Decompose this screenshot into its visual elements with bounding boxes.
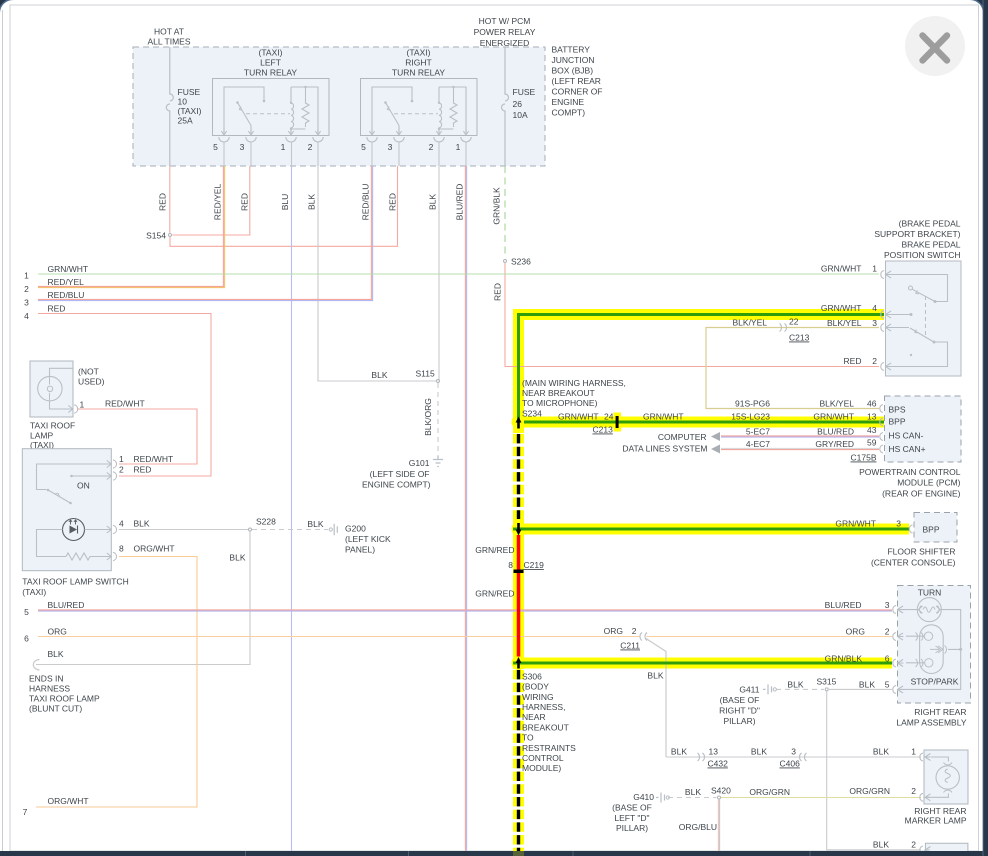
wire ORG/GRN S420 to marker lamp pin 2 <box>721 797 921 799</box>
svg-text:10A: 10A <box>513 110 528 120</box>
svg-text:24: 24 <box>604 412 614 422</box>
svg-text:RIGHT REAR: RIGHT REAR <box>914 707 966 717</box>
svg-text:BPP: BPP <box>923 525 940 535</box>
svg-text:BLK: BLK <box>48 649 64 659</box>
svg-text:WIRING: WIRING <box>522 692 554 702</box>
harness dashes upper <box>517 434 520 519</box>
svg-text:4: 4 <box>119 519 124 529</box>
svg-text:BLK: BLK <box>371 370 387 380</box>
svg-text:6: 6 <box>885 654 890 664</box>
svg-text:BLU/RED: BLU/RED <box>817 427 854 437</box>
svg-text:STOP/PARK: STOP/PARK <box>911 677 959 687</box>
svg-text:HARNESS,: HARNESS, <box>522 702 565 712</box>
svg-text:BLK: BLK <box>685 787 701 797</box>
svg-text:S234: S234 <box>522 409 542 419</box>
svg-text:(CENTER CONSOLE): (CENTER CONSOLE) <box>871 558 956 568</box>
relay K1 pin sockets <box>219 128 323 142</box>
svg-text:BLU: BLU <box>280 194 290 211</box>
svg-text:S115: S115 <box>416 369 435 379</box>
wire ORG/BLU S420 down offpage (orange+blue) <box>717 800 719 852</box>
pin 1 connector <box>68 405 77 413</box>
wire core GRN/WHT floor shifter <box>513 528 909 531</box>
svg-text:COMPUTER: COMPUTER <box>658 432 707 442</box>
dialog inner borders <box>2 10 4 851</box>
svg-text:ORG: ORG <box>48 627 67 637</box>
wire BLK G411 to S315 (dashed) <box>776 688 824 690</box>
wire GRN/WHT row 1 to brake switch pin 1 <box>38 273 879 275</box>
svg-text:S315: S315 <box>817 677 837 687</box>
svg-text:GRN/WHT: GRN/WHT <box>558 412 599 422</box>
wire RED/BLU relay K2 pin5 to row 3 (red+blue) <box>38 166 371 299</box>
svg-text:GRN/WHT: GRN/WHT <box>835 519 876 529</box>
arrow to computer data lines <box>711 432 720 441</box>
wire BLK S315 down to license lamp row <box>827 691 921 850</box>
svg-text:BLU/RED: BLU/RED <box>48 600 85 610</box>
wire GRN/WHT highlighted: S234 up/right to brake switch pin 4 and right to PCM pin 13 <box>519 315 885 423</box>
svg-text:3: 3 <box>388 142 393 152</box>
svg-text:TAXI ROOF: TAXI ROOF <box>30 421 75 431</box>
junction arrow S306 <box>516 657 522 669</box>
svg-text:TURN: TURN <box>918 588 942 598</box>
wire BLK switch pin4 to S228 <box>119 529 248 531</box>
svg-text:S228: S228 <box>256 517 276 527</box>
ground G200 <box>329 524 391 555</box>
svg-text:RIGHT "D": RIGHT "D" <box>719 706 760 716</box>
wire GRN/BLK highlighted to stop/park lamp <box>513 658 892 669</box>
svg-text:MODULE (PCM): MODULE (PCM) <box>897 478 960 488</box>
svg-text:LAMP ASSEMBLY: LAMP ASSEMBLY <box>896 718 966 728</box>
wire GRN/WHT highlighted to floor shifter BPP <box>513 524 909 535</box>
svg-text:JUNCTION: JUNCTION <box>552 55 595 65</box>
svg-text:GRN/BLK: GRN/BLK <box>825 654 863 664</box>
highlighted harness path vertical (dashed sections show yellow blocks) <box>513 422 524 433</box>
svg-text:5-EC7: 5-EC7 <box>746 427 770 437</box>
wire core GRN/BLK stop/park <box>513 662 892 665</box>
svg-text:FLOOR SHIFTER: FLOOR SHIFTER <box>887 547 955 557</box>
svg-text:POWER RELAY: POWER RELAY <box>474 27 536 37</box>
svg-text:BLK: BLK <box>307 519 323 529</box>
svg-text:BLK: BLK <box>873 840 889 850</box>
relay K1 (left turn relay) <box>213 79 330 153</box>
svg-text:(LEFT SIDE OF: (LEFT SIDE OF <box>370 469 430 479</box>
wire RED S154 to relay K1 pin 3 <box>172 166 250 235</box>
svg-text:3: 3 <box>872 318 877 328</box>
svg-text:BLK/YEL: BLK/YEL <box>733 318 768 328</box>
svg-text:DATA LINES SYSTEM: DATA LINES SYSTEM <box>622 444 707 454</box>
svg-text:GRN/WHT: GRN/WHT <box>813 412 854 422</box>
svg-text:HS CAN-: HS CAN- <box>889 431 924 441</box>
svg-text:GRN/WHT: GRN/WHT <box>643 412 684 422</box>
svg-text:BLK: BLK <box>307 194 317 210</box>
right app edge <box>983 0 988 856</box>
svg-text:ORG/WHT: ORG/WHT <box>48 796 89 806</box>
svg-text:ORG: ORG <box>846 627 865 637</box>
svg-text:RED: RED <box>158 193 168 211</box>
svg-text:22: 22 <box>789 317 799 327</box>
svg-text:C406: C406 <box>780 759 801 769</box>
svg-text:ENERGIZED: ENERGIZED <box>480 38 530 48</box>
wire RED S236 to brake switch pin 2 <box>505 263 879 367</box>
svg-text:LEFT "D": LEFT "D" <box>614 813 649 823</box>
resistor R1 <box>66 553 111 560</box>
svg-text:S154: S154 <box>146 231 166 241</box>
svg-text:ORG/WHT: ORG/WHT <box>134 544 175 554</box>
svg-text:ORG/GRN: ORG/GRN <box>749 787 790 797</box>
switch 1 <box>890 275 948 302</box>
svg-text:RED: RED <box>493 283 503 301</box>
relay pin leads (gray inside BJB box) <box>224 142 466 167</box>
svg-text:26: 26 <box>513 99 523 109</box>
indicator LED <box>63 519 85 541</box>
svg-text:BLK: BLK <box>873 747 889 757</box>
svg-text:(BODY: (BODY <box>522 682 549 692</box>
svg-text:15S-LG23: 15S-LG23 <box>731 412 770 422</box>
svg-text:BRAKE PEDAL: BRAKE PEDAL <box>901 240 960 250</box>
wire BLU/RED row 5 to lamp pin 3 (blue+red) <box>38 609 892 611</box>
svg-text:GRN/WHT: GRN/WHT <box>48 264 89 274</box>
svg-text:1: 1 <box>24 271 29 281</box>
wire BLU/RED relay K2 pin1 down to row 5 and offpage (blue+red) <box>464 166 466 851</box>
svg-text:(TAXI): (TAXI) <box>22 587 46 597</box>
svg-text:FUSE: FUSE <box>178 87 201 97</box>
splice S236 <box>504 260 507 263</box>
svg-text:2: 2 <box>911 786 916 796</box>
svg-text:4: 4 <box>24 311 29 321</box>
svg-text:(LEFT REAR: (LEFT REAR <box>552 76 601 86</box>
svg-text:BPS: BPS <box>889 405 906 415</box>
svg-text:BLK: BLK <box>787 680 803 690</box>
splice S315 <box>825 688 828 691</box>
svg-text:1: 1 <box>911 747 916 757</box>
svg-text:TAXI ROOF LAMP: TAXI ROOF LAMP <box>29 694 100 704</box>
white modal dialog <box>0 0 984 13</box>
svg-text:POWERTRAIN CONTROL: POWERTRAIN CONTROL <box>859 467 961 477</box>
splice S154 <box>169 234 172 237</box>
lamp bulb L1 <box>38 376 62 400</box>
svg-text:ENDS IN: ENDS IN <box>29 674 63 684</box>
highlighted harness hint crossing bottom bar <box>513 851 524 856</box>
svg-text:ENGINE COMPT): ENGINE COMPT) <box>362 480 431 490</box>
wire BLK/ORG S115 to G101 (dashed) <box>437 383 439 456</box>
svg-text:ENGINE: ENGINE <box>552 97 585 107</box>
svg-text:5: 5 <box>213 142 218 152</box>
close button <box>905 16 965 76</box>
svg-text:HARNESS: HARNESS <box>29 684 70 694</box>
svg-text:GRN/RED: GRN/RED <box>475 545 514 555</box>
svg-text:RED/YEL: RED/YEL <box>48 277 85 287</box>
gang link <box>925 296 927 336</box>
connector C213 arcs on BLK/YEL <box>780 324 787 332</box>
svg-text:TO: TO <box>522 733 534 743</box>
wire RED S154 to relay K2 pin 3 <box>170 166 398 246</box>
svg-text:2: 2 <box>911 840 916 850</box>
svg-text:BOX (BJB): BOX (BJB) <box>552 66 594 76</box>
svg-text:3: 3 <box>896 519 901 529</box>
svg-text:COMPT): COMPT) <box>552 108 586 118</box>
svg-text:ORG/GRN: ORG/GRN <box>849 786 890 796</box>
svg-text:BLK: BLK <box>229 553 245 563</box>
ground G101 <box>362 456 443 490</box>
wire BLK S228 to G200 (dashed) <box>252 529 328 531</box>
svg-text:BLK/YEL: BLK/YEL <box>820 399 855 409</box>
wire BLK S315 to lamp pin 5 <box>829 688 892 690</box>
svg-text:2: 2 <box>308 142 313 152</box>
svg-text:6: 6 <box>24 634 29 644</box>
svg-text:(NOT: (NOT <box>78 367 99 377</box>
svg-text:(BLUNT CUT): (BLUNT CUT) <box>29 704 82 714</box>
svg-text:C211: C211 <box>620 641 640 651</box>
svg-text:LAMP: LAMP <box>30 431 53 441</box>
svg-text:(LEFT KICK: (LEFT KICK <box>345 534 391 544</box>
svg-text:3: 3 <box>791 747 796 757</box>
svg-text:46: 46 <box>867 399 877 409</box>
svg-text:2: 2 <box>872 356 877 366</box>
svg-text:43: 43 <box>867 425 877 435</box>
wire BLK C211 branch down to C432 row <box>646 639 666 758</box>
svg-text:RED: RED <box>48 304 66 314</box>
svg-text:5: 5 <box>361 142 366 152</box>
svg-text:NEAR BREAKOUT: NEAR BREAKOUT <box>522 388 595 398</box>
wire RED/WHT taxi roof lamp pin1 to switch pin1 <box>77 409 197 464</box>
svg-text:S420: S420 <box>711 786 731 796</box>
svg-text:GRN/WHT: GRN/WHT <box>821 303 862 313</box>
wire core GRN/RED vertical <box>517 535 521 657</box>
svg-text:13: 13 <box>867 412 877 422</box>
svg-text:RED/BLU: RED/BLU <box>48 290 85 300</box>
svg-text:GRN/RED: GRN/RED <box>475 589 514 599</box>
svg-text:HOT AT: HOT AT <box>154 27 184 37</box>
wire RED fuse10 to S154 <box>169 166 171 233</box>
svg-text:GRN/BLK: GRN/BLK <box>492 187 502 225</box>
wire RED row 4 to lamp switch pin 2 <box>38 314 211 477</box>
svg-text:BLU/RED: BLU/RED <box>825 600 862 610</box>
svg-text:25A: 25A <box>178 116 193 126</box>
connector C219 tick on highlighted wire <box>514 570 524 574</box>
svg-text:5: 5 <box>24 607 29 617</box>
svg-text:CORNER OF: CORNER OF <box>552 87 603 97</box>
splice S228 <box>249 528 252 531</box>
svg-text:C219: C219 <box>524 560 545 570</box>
svg-text:1: 1 <box>80 400 85 410</box>
wire RED/YEL relay K1 pin5 to row 2 (red+yellow) <box>38 166 223 286</box>
svg-text:BLK: BLK <box>134 519 150 529</box>
svg-text:RED: RED <box>844 356 862 366</box>
svg-text:BLK: BLK <box>859 680 875 690</box>
svg-text:HOT W/ PCM: HOT W/ PCM <box>479 16 531 26</box>
svg-text:RESTRAINTS: RESTRAINTS <box>522 743 576 753</box>
svg-text:5: 5 <box>885 680 890 690</box>
arrow to computer data lines <box>711 445 720 454</box>
svg-text:G200: G200 <box>345 524 366 534</box>
svg-text:1: 1 <box>119 454 124 464</box>
svg-text:RED/BLU: RED/BLU <box>361 184 371 221</box>
svg-text:(TAXI): (TAXI) <box>178 106 202 116</box>
svg-text:ORG: ORG <box>604 626 623 636</box>
svg-text:ALL TIMES: ALL TIMES <box>148 37 191 47</box>
svg-text:7: 7 <box>23 807 28 817</box>
svg-text:PILLAR): PILLAR) <box>723 716 755 726</box>
svg-text:2: 2 <box>24 284 29 294</box>
svg-text:RIGHT: RIGHT <box>405 58 431 68</box>
svg-text:2: 2 <box>632 626 637 636</box>
wire BLK G410 to S420 (dashed) <box>668 797 717 799</box>
svg-text:RED/YEL: RED/YEL <box>213 184 223 221</box>
svg-text:PANEL): PANEL) <box>345 545 375 555</box>
svg-text:2: 2 <box>429 142 434 152</box>
relay K2 pin sockets <box>367 128 471 142</box>
svg-text:(BRAKE PEDAL: (BRAKE PEDAL <box>899 219 961 229</box>
junction arrow at floor shifter tap <box>516 523 522 536</box>
svg-text:1: 1 <box>872 264 877 274</box>
svg-text:GRY/RED: GRY/RED <box>815 439 854 449</box>
svg-text:4-EC7: 4-EC7 <box>746 439 770 449</box>
wire GRY/RED PCM pin59 (HS CAN+) (gray+red) <box>721 447 879 449</box>
battery junction box (dashed) <box>133 47 545 166</box>
svg-text:S236: S236 <box>511 257 531 267</box>
svg-text:8: 8 <box>119 544 124 554</box>
svg-text:RED: RED <box>388 193 398 211</box>
fuse F10 symbol <box>166 92 173 113</box>
svg-text:4: 4 <box>872 303 877 313</box>
switch 2 <box>890 314 910 316</box>
svg-text:S306: S306 <box>522 672 542 682</box>
svg-text:3: 3 <box>240 142 245 152</box>
svg-text:2: 2 <box>885 627 890 637</box>
wire core GRN/WHT <box>519 315 885 421</box>
svg-text:(TAXI): (TAXI) <box>259 48 283 58</box>
fuse 10 lead <box>169 47 171 166</box>
svg-text:(BASE OF: (BASE OF <box>720 695 760 705</box>
svg-text:C213: C213 <box>593 425 614 435</box>
svg-text:RED: RED <box>240 193 250 211</box>
svg-text:BLK/ORG: BLK/ORG <box>423 398 433 436</box>
svg-text:USED): USED) <box>78 377 105 387</box>
svg-text:C175B: C175B <box>851 453 877 463</box>
svg-text:BLK: BLK <box>428 194 438 210</box>
fuse F26 symbol <box>502 92 509 113</box>
svg-text:BLK: BLK <box>647 671 663 681</box>
svg-text:10: 10 <box>178 97 188 107</box>
connector C213 tick on highlighted wire <box>614 413 622 417</box>
wire GRN/BLK fuse26 to S236 (dashed) <box>504 166 506 258</box>
wire BLK/YEL brake pin3 to PCM pin46 <box>706 328 879 409</box>
wire ORG row 6 to C211 to lamp pin 2 <box>38 636 892 638</box>
svg-text:3: 3 <box>24 298 29 308</box>
svg-text:ON: ON <box>77 481 90 491</box>
wire BLK S228 down to blunt cut row <box>36 532 250 665</box>
svg-text:GRN/WHT: GRN/WHT <box>821 264 862 274</box>
wire BLK relay K2 pin2 to S115 <box>438 166 440 381</box>
svg-text:PILLAR): PILLAR) <box>616 823 648 833</box>
svg-text:TURN RELAY: TURN RELAY <box>392 68 446 78</box>
svg-text:RIGHT REAR: RIGHT REAR <box>914 806 966 816</box>
svg-text:8: 8 <box>508 560 513 570</box>
svg-text:RED: RED <box>134 465 152 475</box>
svg-text:G101: G101 <box>409 458 430 468</box>
svg-text:POSITION SWITCH: POSITION SWITCH <box>884 250 961 260</box>
svg-text:RED/WHT: RED/WHT <box>105 399 145 409</box>
svg-text:CONTROL: CONTROL <box>522 753 564 763</box>
svg-text:NEAR: NEAR <box>522 712 546 722</box>
turn bulb <box>917 598 941 622</box>
svg-text:59: 59 <box>867 438 877 448</box>
svg-text:3: 3 <box>885 600 890 610</box>
svg-text:MARKER LAMP: MARKER LAMP <box>905 816 967 826</box>
svg-text:C432: C432 <box>708 759 729 769</box>
svg-text:G411: G411 <box>739 685 759 695</box>
pin connectors 3,2,6,5 <box>893 606 904 694</box>
svg-text:BPP: BPP <box>889 417 906 427</box>
svg-text:HS CAN+: HS CAN+ <box>889 444 926 454</box>
svg-text:TURN RELAY: TURN RELAY <box>244 68 298 78</box>
svg-text:TAXI ROOF LAMP SWITCH: TAXI ROOF LAMP SWITCH <box>22 577 128 587</box>
svg-text:ORG/BLU: ORG/BLU <box>679 822 717 832</box>
svg-text:BREAKOUT: BREAKOUT <box>522 723 569 733</box>
svg-text:SUPPORT BRACKET): SUPPORT BRACKET) <box>874 229 960 239</box>
svg-text:BLK/YEL: BLK/YEL <box>827 318 862 328</box>
stop/park dual filament bulb <box>920 625 944 674</box>
wire BLK C432/C406 row to marker lamp pin 1 <box>666 756 921 758</box>
pin connectors <box>107 460 117 561</box>
switch SW1 internals <box>37 464 112 490</box>
svg-text:1: 1 <box>456 142 461 152</box>
harness dashes lower <box>517 670 520 851</box>
svg-text:TO MICROPHONE): TO MICROPHONE) <box>522 398 598 408</box>
wire BLU/RED PCM pin43 (HS CAN-) (blue+red) <box>721 435 879 437</box>
svg-text:BLK: BLK <box>751 747 767 757</box>
svg-text:G410: G410 <box>633 792 654 802</box>
svg-text:BLK: BLK <box>671 747 687 757</box>
wire BLK relay K1 pin2 to S115 <box>318 166 436 381</box>
svg-text:(MAIN WIRING HARNESS,: (MAIN WIRING HARNESS, <box>522 378 626 388</box>
svg-text:(REAR OF ENGINE): (REAR OF ENGINE) <box>882 489 961 499</box>
splice S115 <box>437 380 440 383</box>
svg-text:MODULE): MODULE) <box>522 763 561 773</box>
relay K2 (right turn relay) <box>361 79 478 153</box>
svg-text:1: 1 <box>281 142 286 152</box>
wire BLU relay K1 pin1 down offpage <box>291 166 293 851</box>
svg-text:(BASE OF: (BASE OF <box>612 803 652 813</box>
marker bulb <box>936 766 959 789</box>
svg-text:13: 13 <box>709 747 719 757</box>
junction arrow S234 <box>516 417 522 429</box>
svg-text:2: 2 <box>119 465 124 475</box>
fuse 26 lead <box>504 47 506 166</box>
svg-text:91S-PG6: 91S-PG6 <box>735 399 770 409</box>
svg-text:RED/WHT: RED/WHT <box>134 454 174 464</box>
pin connectors 1,4,3,2 <box>881 271 893 371</box>
svg-text:C213: C213 <box>789 333 810 343</box>
wire ORG/WHT switch pin8 to row 7 <box>36 557 197 808</box>
svg-text:(TAXI): (TAXI) <box>407 48 431 58</box>
svg-text:BLU/RED: BLU/RED <box>455 184 465 221</box>
splice S420 <box>718 796 721 799</box>
svg-text:FUSE: FUSE <box>513 87 536 97</box>
svg-text:BATTERY: BATTERY <box>552 45 591 55</box>
svg-text:LEFT: LEFT <box>260 58 281 68</box>
